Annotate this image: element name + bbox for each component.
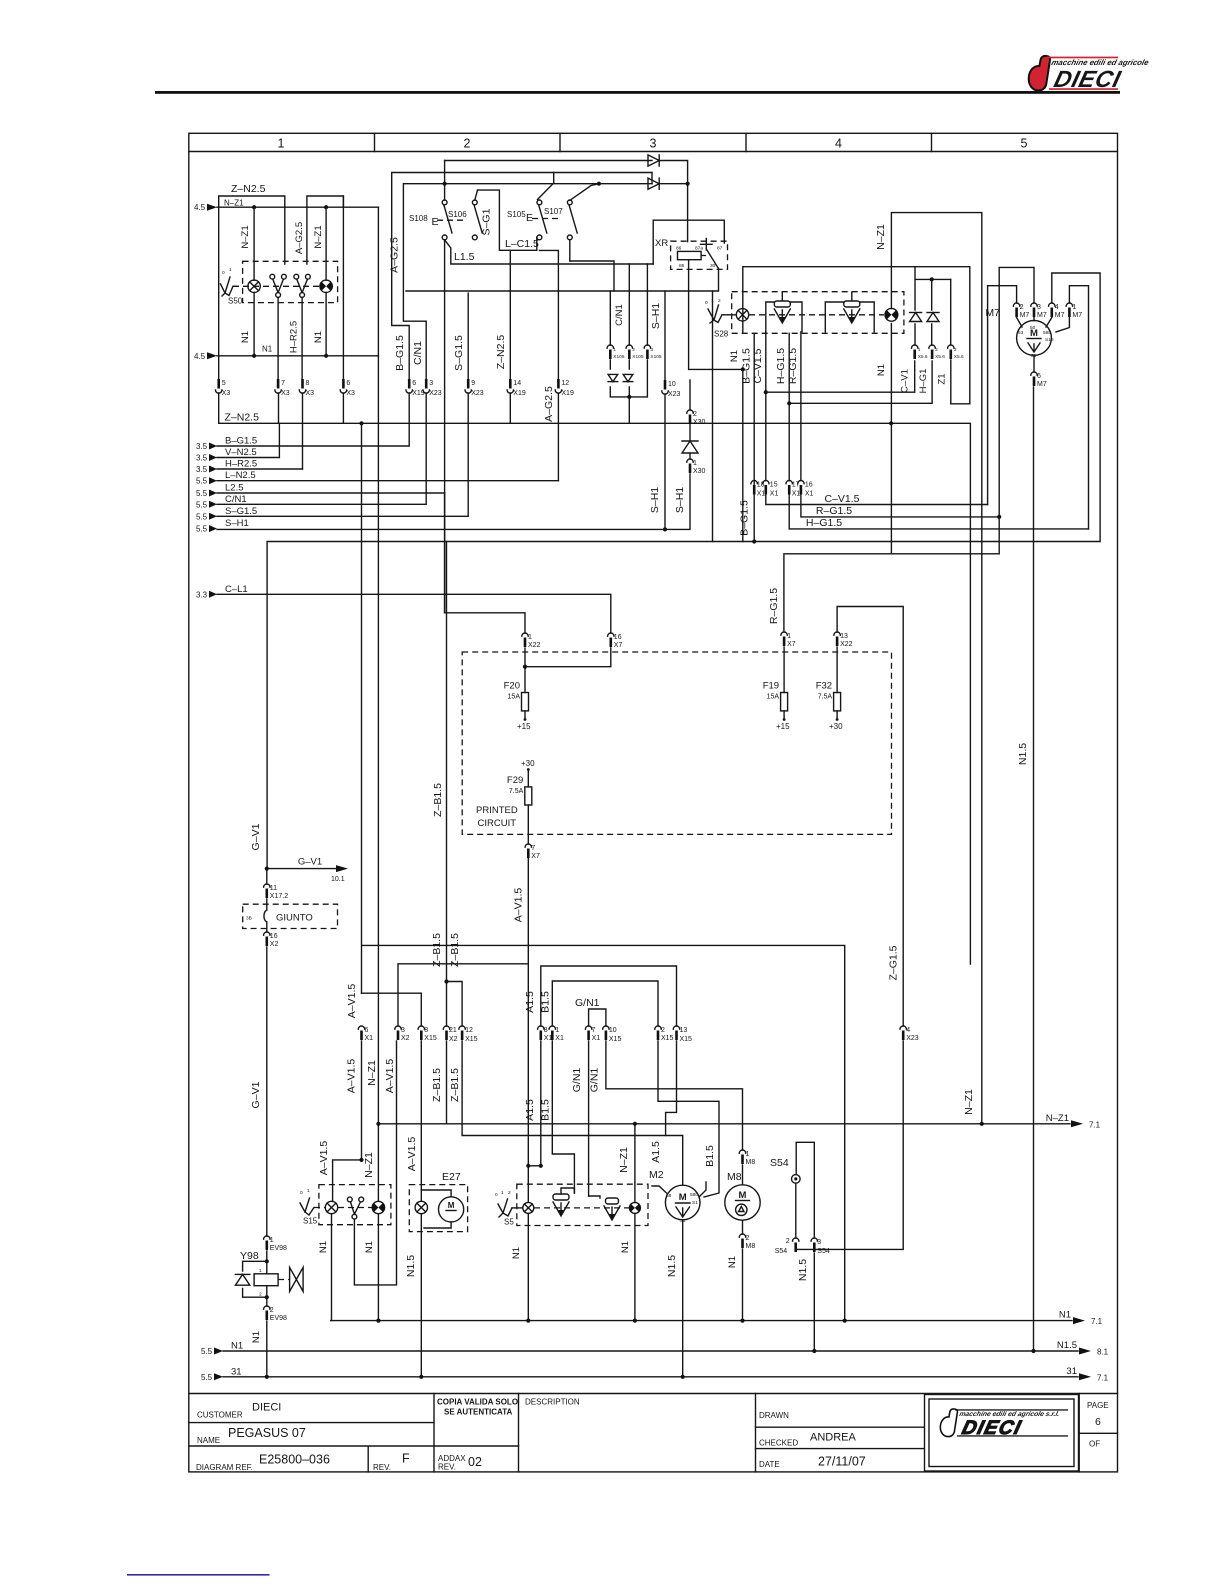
- entry 5.5 31 bottom: [201, 1366, 242, 1382]
- wire E27 lamp down: [420, 1214, 422, 1377]
- svg-text:CHECKED: CHECKED: [759, 1439, 798, 1448]
- svg-text:3: 3: [954, 347, 957, 353]
- motor M8: [725, 1185, 760, 1220]
- svg-text:16: 16: [614, 634, 622, 641]
- svg-text:M: M: [679, 1192, 687, 1203]
- svg-text:G/N1: G/N1: [589, 1068, 601, 1093]
- svg-text:X1: X1: [770, 491, 779, 498]
- wire R-G1.5 to F19: [784, 517, 999, 632]
- connector pin 3/M7: [1031, 303, 1047, 319]
- svg-text:REV.: REV.: [373, 1463, 391, 1472]
- svg-text:1: 1: [528, 634, 532, 641]
- svg-text:N–Z1: N–Z1: [963, 1089, 975, 1115]
- wire N1 bus: [217, 355, 378, 357]
- svg-text:7.1: 7.1: [1091, 1317, 1103, 1326]
- svg-text:F: F: [402, 1452, 410, 1466]
- terminal +30 F29: [527, 768, 530, 771]
- connector pin 16/X7: [608, 633, 623, 649]
- wire L-C1.5 row: [539, 250, 558, 379]
- title block: [189, 1394, 1118, 1472]
- connector pin 6/M7: [1031, 372, 1047, 388]
- wire Y98 diode loop: [243, 1261, 267, 1297]
- S28 selector pin: [705, 298, 736, 323]
- svg-text:A–G2.5: A–G2.5: [543, 386, 555, 422]
- svg-text:2: 2: [786, 1238, 790, 1245]
- connector pin 13/X22: [834, 632, 853, 648]
- relay XR contact: [701, 239, 719, 269]
- branch arrow G-V1 10.1: [267, 857, 348, 884]
- wire X7-16 to F20 node: [525, 648, 611, 667]
- svg-text:M7: M7: [1037, 381, 1047, 388]
- svg-text:R–G1.5: R–G1.5: [768, 588, 780, 624]
- wire S15 lamp1 down: [330, 1214, 333, 1321]
- svg-text:A1.5: A1.5: [650, 1141, 662, 1163]
- connector pin 6/X1: [358, 1026, 373, 1042]
- wire N-Z1 long vertical: [377, 207, 379, 1201]
- wire S5 lamp1 down: [527, 1213, 529, 1320]
- svg-text:30: 30: [710, 263, 716, 269]
- S15 switch: [347, 1197, 363, 1219]
- connector pin 1/M7: [1066, 303, 1082, 319]
- diode top A: [648, 155, 659, 166]
- solenoid valve Y98 coil: [254, 1274, 278, 1286]
- svg-text:G–V1: G–V1: [250, 823, 262, 850]
- wire A-V1.5 into S15: [333, 1160, 362, 1201]
- svg-text:H–G1.5: H–G1.5: [806, 517, 842, 529]
- connector pin 7/X7: [525, 844, 540, 860]
- wire H-G1 row: [789, 361, 932, 403]
- footer link line: [127, 1574, 270, 1576]
- junction diode pair: [930, 277, 934, 281]
- svg-text:1: 1: [1072, 304, 1076, 311]
- svg-text:8.1: 8.1: [1097, 1348, 1109, 1357]
- mech dashed link S108-S106: [437, 219, 467, 221]
- svg-text:12: 12: [561, 380, 569, 387]
- svg-text:27/11/07: 27/11/07: [818, 1455, 866, 1469]
- svg-text:C/N1: C/N1: [225, 494, 247, 505]
- svg-text:0: 0: [300, 1190, 303, 1196]
- svg-text:N1: N1: [313, 331, 324, 343]
- svg-text:5: 5: [222, 380, 226, 387]
- junction G-V1 branch: [265, 867, 269, 871]
- svg-text:X15: X15: [661, 1035, 674, 1042]
- svg-text:N–Z1: N–Z1: [1046, 1113, 1069, 1124]
- svg-text:58b: 58b: [690, 1192, 698, 1198]
- wire S107 bottom: [569, 240, 571, 261]
- wire N branch: [362, 423, 845, 1320]
- svg-text:M7: M7: [985, 307, 1000, 319]
- svg-text:N1: N1: [1059, 1310, 1071, 1321]
- svg-text:1: 1: [555, 1027, 559, 1034]
- svg-text:5: 5: [1021, 137, 1028, 151]
- svg-text:N1: N1: [251, 1331, 262, 1343]
- fuse F19 15A: [763, 681, 788, 711]
- junction under diodes: [627, 395, 631, 399]
- svg-text:10: 10: [609, 1027, 617, 1034]
- wire Z-B1.5 long: [446, 542, 448, 982]
- svg-text:14: 14: [513, 380, 521, 387]
- svg-text:0: 0: [222, 270, 225, 276]
- mech dashed link S105-S107: [532, 218, 562, 220]
- wire M8 pin2 down: [742, 1249, 744, 1321]
- wire N-Z1 top horizontal: [217, 206, 378, 208]
- wire Z-N2.5 label box: [219, 196, 285, 207]
- connector pin 6/X19: [406, 379, 425, 397]
- svg-text:S54: S54: [775, 1248, 788, 1255]
- junction Z-B1.5: [444, 979, 448, 983]
- wire F29 to X7-7: [527, 805, 529, 844]
- svg-text:3: 3: [429, 380, 433, 387]
- svg-text:6: 6: [1037, 373, 1041, 380]
- wire lamp H1 feed: [253, 207, 255, 280]
- junction Y98 bottom: [265, 1295, 269, 1299]
- svg-text:3.5: 3.5: [196, 454, 208, 463]
- svg-text:N1.5: N1.5: [1057, 1340, 1077, 1351]
- svg-text:4.5: 4.5: [194, 352, 206, 361]
- svg-text:X105: X105: [650, 354, 662, 360]
- connector pin 14/X19: [507, 379, 526, 397]
- connector pin 2/X30: [687, 410, 706, 426]
- svg-text:8: 8: [424, 1027, 428, 1034]
- svg-text:3: 3: [1037, 304, 1041, 311]
- wire A1.5 hoop: [541, 966, 677, 1026]
- switch block S28 dashed box: [732, 292, 904, 334]
- wire X22-1 to F20: [524, 648, 526, 693]
- svg-text:5.5: 5.5: [196, 500, 208, 509]
- svg-text:X15: X15: [680, 1036, 693, 1043]
- connector pin 8/X15: [418, 1026, 437, 1042]
- svg-text:1: 1: [259, 1268, 262, 1274]
- svg-text:G/N1: G/N1: [571, 1068, 583, 1093]
- junction S5 feed: [539, 1164, 543, 1168]
- wire C/N1 entry: [217, 393, 426, 504]
- junction N1/XR: [741, 367, 745, 371]
- svg-text:X105: X105: [632, 354, 644, 360]
- connector pin 6/X3: [340, 379, 355, 397]
- svg-text:M7: M7: [1055, 312, 1065, 319]
- wire pin1b down: [552, 1041, 574, 1193]
- svg-text:53: 53: [1018, 330, 1024, 336]
- wire C/N1 upper loop: [403, 184, 652, 379]
- entry 3.5 B-G1.5: [196, 436, 257, 452]
- svg-text:X3: X3: [222, 390, 231, 397]
- junction S15 A-V1.5: [359, 1158, 363, 1162]
- connector pin 3/X2: [395, 1026, 410, 1042]
- connector pin 8/X3: [299, 379, 314, 397]
- wire X105 feeds: [610, 264, 647, 345]
- entry 5.5 L-N2.5: [196, 470, 256, 486]
- svg-text:N1: N1: [729, 350, 740, 362]
- wire F19 out: [783, 711, 785, 719]
- wire A-V1.5 from F29: [527, 857, 529, 1202]
- junction S54 on N1.5 row: [812, 1349, 816, 1353]
- S28 mech dashed line: [749, 314, 884, 316]
- svg-text:R–G1.5: R–G1.5: [787, 348, 799, 384]
- svg-text:Z–N2.5: Z–N2.5: [495, 335, 507, 370]
- svg-text:7: 7: [592, 1027, 596, 1034]
- svg-text:B–G1.5: B–G1.5: [739, 500, 751, 536]
- svg-text:M8: M8: [727, 1171, 742, 1183]
- svg-text:F29: F29: [507, 775, 523, 786]
- svg-text:Z–B1.5: Z–B1.5: [431, 933, 443, 967]
- svg-text:2: 2: [718, 298, 721, 304]
- svg-text:85: 85: [679, 263, 685, 269]
- wire S105 bottom: [536, 237, 538, 250]
- connector pin 5/X3: [216, 379, 231, 397]
- connector pin 3/X23: [423, 379, 442, 397]
- wire 31 row: [223, 1376, 1078, 1378]
- svg-text:N–Z1: N–Z1: [224, 199, 244, 208]
- svg-text:ANDREA: ANDREA: [810, 1432, 857, 1444]
- wire S54 pin3 down: [813, 1253, 815, 1351]
- svg-text:L–C1.5: L–C1.5: [505, 238, 539, 250]
- wire pin12 col down: [557, 393, 559, 481]
- wire Y98 down: [266, 1321, 268, 1377]
- svg-text:4: 4: [906, 1027, 910, 1034]
- relay XR coil: [678, 251, 702, 259]
- connector pin 4/M7: [1049, 303, 1065, 319]
- svg-text:S18: S18: [1045, 337, 1054, 343]
- svg-text:N1: N1: [364, 1241, 375, 1253]
- flyback diode Y98: [235, 1274, 249, 1285]
- svg-text:A–V1.5: A–V1.5: [346, 984, 358, 1019]
- svg-text:N1: N1: [620, 1241, 631, 1253]
- junction Z-N2.5/N1 net: [889, 421, 893, 425]
- svg-text:31: 31: [231, 1366, 242, 1377]
- svg-text:3: 3: [650, 137, 657, 151]
- svg-text:X3: X3: [306, 390, 315, 397]
- wire M7 pin4 feed: [1052, 273, 1100, 542]
- wire M8 pin1 to motor: [742, 1165, 744, 1185]
- wire B-G1.5 upper loop: [392, 173, 652, 380]
- wire EV98 pin1 to coil: [266, 1251, 268, 1274]
- wire E27 motor down: [424, 1222, 451, 1228]
- wire X30 pin2 to diode: [689, 424, 691, 441]
- wire S54 button down: [795, 1183, 797, 1238]
- svg-text:N–Z1: N–Z1: [875, 224, 887, 250]
- svg-text:C/N1: C/N1: [614, 304, 625, 326]
- svg-text:Y98: Y98: [240, 1250, 259, 1262]
- fuse F20 15A: [504, 681, 529, 711]
- svg-text:E27: E27: [442, 1171, 461, 1183]
- wire after diode A: [659, 161, 688, 242]
- connector pin 15/X1: [763, 481, 779, 498]
- wire X22-13 to F32: [836, 647, 838, 693]
- entry 5.5 N1 bottom: [201, 1341, 243, 1357]
- svg-text:X105: X105: [613, 354, 625, 360]
- valve symbol Y98: [290, 1267, 304, 1291]
- svg-text:EV98: EV98: [270, 1315, 287, 1322]
- wire pin8b down to S5: [540, 1041, 542, 1166]
- entry 5.5 S-G1.5: [196, 506, 257, 522]
- wire X30 column top: [689, 380, 691, 410]
- svg-text:X1: X1: [792, 491, 801, 498]
- connector pin 16/X1: [798, 481, 814, 498]
- wire S108 column: [444, 161, 446, 613]
- wire F20 out: [524, 711, 526, 719]
- svg-text:NAME: NAME: [197, 1436, 220, 1445]
- connector pin 2/S54: [775, 1238, 799, 1255]
- svg-text:N–Z1: N–Z1: [366, 1060, 378, 1086]
- svg-text:S54: S54: [770, 1157, 789, 1169]
- wire F32 out: [836, 711, 838, 719]
- svg-text:X5.6: X5.6: [954, 354, 964, 360]
- junctions on wire B: [443, 182, 690, 186]
- svg-text:1: 1: [693, 460, 697, 467]
- svg-text:M7: M7: [1072, 312, 1082, 319]
- wire G-V1 long down: [266, 947, 268, 1236]
- wire L-N2.5 entry: [217, 480, 558, 482]
- connector pin 1/X7 f19: [781, 632, 796, 648]
- lamp in S5: [523, 1202, 534, 1213]
- svg-text:X5.6: X5.6: [935, 354, 945, 360]
- wire pins down to Z-N2.5 row: [219, 393, 344, 469]
- connector pin 16/X2: [264, 932, 279, 948]
- svg-text:H–R2.5: H–R2.5: [225, 459, 257, 470]
- svg-text:N–Z1: N–Z1: [240, 225, 251, 248]
- entry 3.3 C-L1: [196, 584, 248, 600]
- junction S5 lamp: [526, 1164, 530, 1168]
- connector pin 17/X1: [786, 481, 800, 498]
- svg-text:X5.6: X5.6: [918, 354, 928, 360]
- wire Z-B1.5 split: [447, 982, 463, 1027]
- wire N1/N1.5 row: [223, 1350, 1078, 1352]
- connector pin 9/X23: [465, 379, 484, 397]
- lamp 2 in S15: [372, 1201, 384, 1213]
- wire S28 outer box top: [743, 267, 970, 334]
- connector pin 3/X105: [644, 345, 662, 360]
- svg-text:A–V1.5: A–V1.5: [318, 1141, 330, 1176]
- svg-text:2: 2: [693, 411, 697, 418]
- connector pin 1/EV98: [264, 1236, 287, 1252]
- svg-text:M8: M8: [746, 1159, 756, 1166]
- svg-text:L2.5: L2.5: [225, 483, 244, 494]
- DIECI logo: [1029, 56, 1151, 93]
- svg-text:C–V1: C–V1: [900, 369, 911, 393]
- svg-text:G/N1: G/N1: [575, 997, 600, 1009]
- lamp unit E27 dashed box: [409, 1185, 467, 1232]
- motor M7: [1017, 321, 1054, 360]
- svg-text:H–G1: H–G1: [918, 369, 929, 394]
- svg-text:3B: 3B: [246, 916, 252, 922]
- svg-text:B–G1.5: B–G1.5: [394, 335, 406, 371]
- wire M2 down: [682, 1220, 684, 1377]
- joint contact symbol: [264, 899, 267, 932]
- svg-text:X23: X23: [668, 391, 681, 398]
- wire L2.5 col to X22: [445, 493, 525, 633]
- svg-text:F32: F32: [816, 681, 832, 692]
- entry 3.5 V-N2.5: [196, 447, 257, 463]
- svg-text:F20: F20: [504, 681, 520, 692]
- svg-text:1: 1: [613, 347, 616, 353]
- junction N-Z1 row left: [376, 1122, 380, 1126]
- svg-text:L1.5: L1.5: [454, 251, 475, 263]
- svg-text:+30: +30: [521, 759, 535, 768]
- svg-text:1: 1: [229, 267, 232, 273]
- svg-text:N1: N1: [318, 1241, 329, 1253]
- wire L2.5 entry: [217, 492, 445, 494]
- entry 5.5 L2.5: [196, 483, 244, 499]
- terminal +30 F32: [836, 718, 839, 721]
- svg-text:3.5: 3.5: [196, 465, 208, 474]
- svg-text:C–V1.5: C–V1.5: [824, 493, 859, 505]
- svg-text:Z–B1.5: Z–B1.5: [431, 1068, 443, 1102]
- wire S50 contact feeds: [285, 207, 307, 264]
- svg-text:S–G1.5: S–G1.5: [453, 335, 465, 371]
- svg-text:S5: S5: [504, 1218, 514, 1227]
- fuse F32 7.5A: [816, 681, 841, 711]
- svg-text:DATE: DATE: [759, 1460, 780, 1469]
- connector pin 7/X1: [585, 1026, 600, 1042]
- wire flasher K2 frame: [825, 292, 874, 332]
- svg-text:M8: M8: [746, 1243, 756, 1250]
- wire G-V1 to pin11: [266, 869, 268, 884]
- svg-text:N–Z1: N–Z1: [363, 1152, 375, 1178]
- wire C-L1 entry to X7: [217, 594, 611, 633]
- svg-text:Z–N2.5: Z–N2.5: [225, 412, 260, 424]
- svg-text:7.1: 7.1: [1089, 1120, 1101, 1129]
- svg-text:X7: X7: [787, 641, 796, 648]
- wire S5 lamp2 down: [634, 1213, 636, 1320]
- wire mid return row: [406, 269, 719, 292]
- svg-text:X15: X15: [609, 1036, 622, 1043]
- svg-text:7: 7: [531, 845, 535, 852]
- svg-text:REV.: REV.: [438, 1463, 456, 1472]
- wire V-N2.5 entry: [217, 423, 279, 457]
- S5 mech dashes: [534, 1207, 630, 1209]
- svg-text:N1: N1: [240, 331, 251, 343]
- wire feed A top: [445, 160, 652, 162]
- svg-text:M: M: [739, 1190, 747, 1201]
- svg-text:X1: X1: [592, 1035, 601, 1042]
- svg-text:N1: N1: [511, 1247, 522, 1259]
- svg-text:CIRCUIT: CIRCUIT: [478, 818, 517, 829]
- wire M2 right stub: [699, 1182, 706, 1197]
- relay XR dashed box: [671, 241, 728, 269]
- connector pin 10/X23: [662, 380, 681, 398]
- indicator lamp 2 in S50: [320, 280, 332, 292]
- logo box DIECI small: [925, 1395, 1079, 1472]
- svg-text:X1: X1: [365, 1035, 374, 1042]
- svg-text:S–G1: S–G1: [481, 208, 493, 235]
- wire M7 pin3 feed: [999, 267, 1034, 517]
- wire S5 inner: [561, 1188, 600, 1198]
- svg-text:S–H1: S–H1: [650, 303, 662, 329]
- svg-text:E: E: [526, 212, 533, 224]
- svg-text:2: 2: [632, 347, 635, 353]
- lamp in S28 right: [885, 308, 898, 321]
- wire H-G1.5 row: [789, 495, 1088, 529]
- svg-text:B–G1.5: B–G1.5: [225, 436, 257, 447]
- svg-text:0: 0: [705, 300, 708, 306]
- wire flasher K1 frame: [766, 292, 802, 332]
- flasher relay in S5 right: [604, 1198, 620, 1220]
- switch S107: [567, 200, 577, 240]
- svg-text:16: 16: [805, 482, 813, 489]
- svg-text:5.5: 5.5: [201, 1347, 213, 1356]
- svg-text:4: 4: [835, 137, 842, 151]
- S15 mech dashes: [338, 1207, 372, 1209]
- wire second label box: [307, 196, 344, 207]
- svg-text:X1: X1: [757, 491, 766, 498]
- svg-text:58b: 58b: [1043, 330, 1051, 336]
- entry arrow 4.5 N1: [194, 352, 217, 361]
- switch block S5 dashed box: [517, 1184, 648, 1225]
- wire pin8 down to E27: [420, 1041, 422, 1201]
- svg-text:N1.5: N1.5: [405, 1255, 417, 1277]
- svg-text:N1: N1: [876, 364, 887, 376]
- svg-text:6: 6: [1095, 1416, 1101, 1428]
